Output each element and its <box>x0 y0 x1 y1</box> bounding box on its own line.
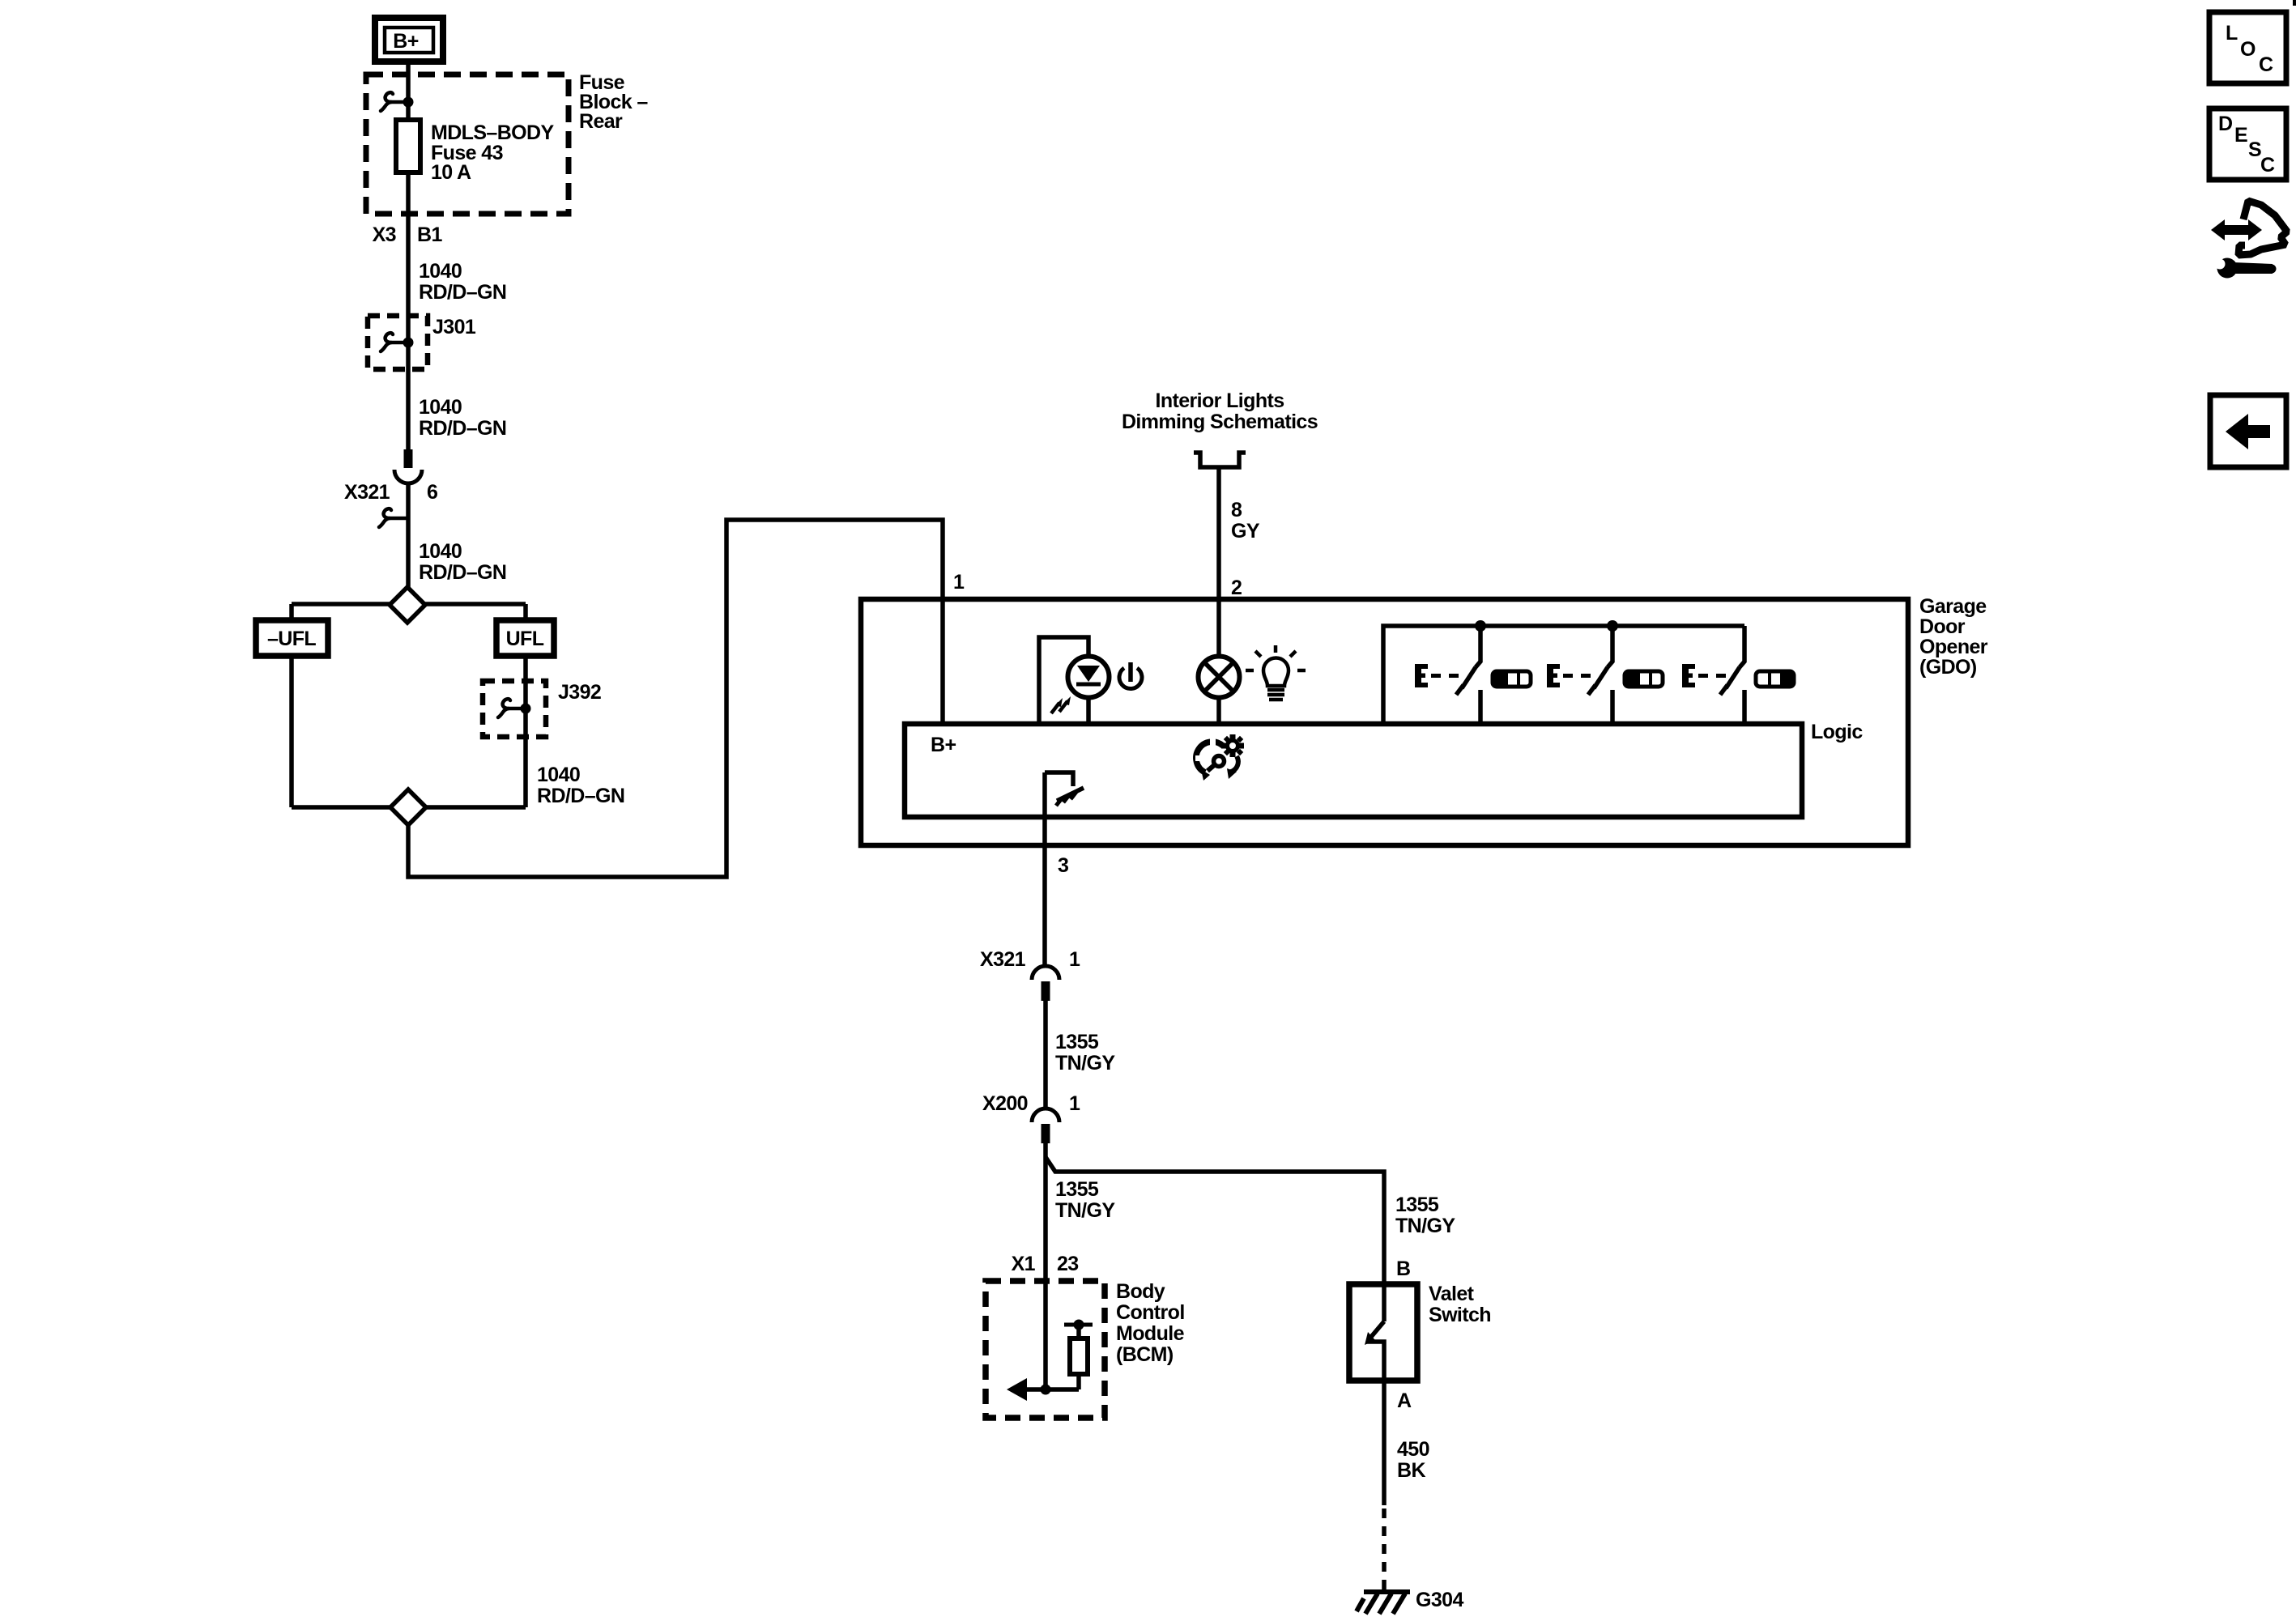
svg-text:BK: BK <box>1397 1459 1425 1482</box>
back arrow navigation box <box>2210 395 2286 467</box>
svg-text:1: 1 <box>1069 1092 1080 1115</box>
svg-text:A: A <box>1397 1389 1412 1412</box>
svg-text:6: 6 <box>427 481 437 504</box>
garage door opener (GDO) outline <box>861 599 1908 845</box>
LOC navigation box <box>2209 12 2286 83</box>
svg-text:RD/D–GN: RD/D–GN <box>419 281 506 304</box>
svg-text:B1: B1 <box>417 223 442 246</box>
svg-text:1355: 1355 <box>1055 1178 1099 1201</box>
wire: dashed to G304 <box>1382 1508 1387 1592</box>
svg-text:Logic: Logic <box>1811 721 1863 743</box>
svg-text:1040: 1040 <box>419 260 462 283</box>
ground G304 <box>1357 1589 1463 1614</box>
svg-text:X321: X321 <box>344 481 390 504</box>
wire: interior lights to GDO pin 2 <box>1216 467 1221 724</box>
svg-text:MDLS–BODY: MDLS–BODY <box>431 121 554 144</box>
svg-text:Opener: Opener <box>1919 636 1988 658</box>
fusible link -UFL <box>256 620 328 656</box>
svg-text:O: O <box>2240 38 2256 61</box>
switch group bus <box>1383 626 1744 724</box>
learn switch 1 <box>1415 626 1480 724</box>
svg-text:TN/GY: TN/GY <box>1055 1199 1115 1222</box>
svg-text:Valet: Valet <box>1429 1283 1475 1305</box>
learn switch 2 <box>1547 626 1612 724</box>
page edge mark <box>2293 0 2296 6</box>
wire: battery feed B+ to fuse, down to connector X321-6 <box>406 60 411 450</box>
wire: valet to ground (solid) <box>1382 1381 1387 1505</box>
svg-text:1: 1 <box>953 571 965 594</box>
signal arrow in BCM <box>1007 1378 1079 1401</box>
valet switch <box>1349 1283 1491 1381</box>
svg-text:(GDO): (GDO) <box>1919 656 1977 679</box>
svg-text:B+: B+ <box>931 734 956 756</box>
wire: UFL loop top rail <box>292 602 526 606</box>
svg-text:1355: 1355 <box>1055 1031 1099 1053</box>
svg-text:–UFL: –UFL <box>267 628 316 650</box>
component location (car + arrows + wrench) icon <box>2211 201 2287 279</box>
indicator battery 1 <box>1493 671 1531 687</box>
lamp (circle-X) <box>1199 657 1240 698</box>
connector X321 pin 1 <box>980 948 1080 1001</box>
indicator battery 3 <box>1756 671 1794 687</box>
svg-text:B: B <box>1396 1257 1410 1280</box>
splice J392 (dashed box with clip) <box>483 681 601 737</box>
svg-text:1: 1 <box>1069 948 1080 971</box>
fuse MDLS-BODY Fuse 43 10 A <box>396 120 554 184</box>
body control module (BCM) dashed outline <box>986 1281 1105 1418</box>
svg-text:Switch: Switch <box>1429 1304 1491 1326</box>
svg-text:Body: Body <box>1116 1280 1165 1303</box>
svg-text:S: S <box>2248 138 2261 161</box>
splice J301 (dashed box with clip) <box>368 316 476 369</box>
svg-text:1355: 1355 <box>1395 1194 1439 1216</box>
svg-text:G304: G304 <box>1416 1589 1463 1611</box>
clip attachment in fuse block <box>381 92 414 111</box>
dimmer gear icon inside logic <box>1195 734 1244 781</box>
svg-text:J392: J392 <box>558 681 601 704</box>
svg-text:UFL: UFL <box>506 628 544 650</box>
photodiode (receiver LED) <box>1051 657 1110 714</box>
logic block inside GDO <box>905 724 1802 817</box>
svg-text:C: C <box>2260 154 2275 177</box>
junction node <box>1475 620 1486 632</box>
wire: GDO pin 3 down to connector X321-1 <box>1042 772 1047 965</box>
svg-text:Garage: Garage <box>1919 595 1987 618</box>
junction node <box>1607 620 1618 632</box>
svg-text:L: L <box>2226 22 2238 45</box>
power symbol <box>1119 662 1142 688</box>
wire: X200 down to BCM <box>1043 1143 1048 1389</box>
splice diamond (bottom) <box>390 789 426 825</box>
svg-text:C: C <box>2259 53 2273 76</box>
svg-text:8: 8 <box>1231 499 1242 521</box>
svg-text:(BCM): (BCM) <box>1116 1343 1174 1366</box>
indicator battery 2 <box>1625 671 1663 687</box>
connector X321 pin 6 <box>344 449 437 527</box>
svg-text:B+: B+ <box>393 30 418 53</box>
svg-text:450: 450 <box>1397 1438 1429 1461</box>
svg-text:Dimming Schematics: Dimming Schematics <box>1122 411 1318 433</box>
svg-text:J301: J301 <box>432 316 476 338</box>
svg-text:1040: 1040 <box>419 396 462 419</box>
svg-text:GY: GY <box>1231 520 1260 543</box>
svg-text:TN/GY: TN/GY <box>1395 1215 1455 1237</box>
bulb icon <box>1246 645 1306 700</box>
wire: branch to valet switch <box>1046 1157 1384 1284</box>
learn switch 3 <box>1682 626 1744 724</box>
photodiode branch loop <box>1039 637 1088 724</box>
svg-text:RD/D–GN: RD/D–GN <box>537 785 624 807</box>
DESC navigation box <box>2209 109 2286 180</box>
svg-text:X321: X321 <box>980 948 1026 971</box>
svg-text:3: 3 <box>1058 854 1068 877</box>
svg-text:X1: X1 <box>1012 1253 1036 1275</box>
svg-text:Door: Door <box>1919 615 1966 638</box>
svg-text:E: E <box>2234 124 2247 147</box>
wire: right branch through UFL <box>523 604 528 807</box>
svg-text:23: 23 <box>1057 1253 1079 1275</box>
wire: connector to diamond <box>406 484 411 587</box>
svg-text:D: D <box>2218 113 2232 135</box>
svg-text:Module: Module <box>1116 1322 1185 1345</box>
B+ battery positive terminal box <box>375 18 443 62</box>
svg-text:1040: 1040 <box>419 540 462 563</box>
wire: left branch through -UFL <box>289 604 294 807</box>
internal ground of GDO logic <box>1045 772 1084 806</box>
pull-up resistor in BCM <box>1064 1320 1093 1390</box>
svg-text:10 A: 10 A <box>431 161 471 184</box>
splice diamond (top) <box>390 587 425 623</box>
wire: UFL loop bottom rail <box>292 805 526 810</box>
svg-text:RD/D–GN: RD/D–GN <box>419 417 506 440</box>
svg-text:1040: 1040 <box>537 764 580 786</box>
svg-text:Interior Lights: Interior Lights <box>1155 389 1284 412</box>
svg-text:RD/D–GN: RD/D–GN <box>419 561 506 584</box>
svg-text:X200: X200 <box>982 1092 1028 1115</box>
connector X200 pin 1 <box>982 1092 1080 1143</box>
interior lights dimming schematics header <box>1122 389 1318 467</box>
wire: X321 to X200 <box>1043 1001 1048 1108</box>
svg-text:2: 2 <box>1231 577 1242 599</box>
fusible link UFL <box>496 620 554 656</box>
svg-text:Rear: Rear <box>579 110 623 133</box>
svg-text:Control: Control <box>1116 1301 1185 1324</box>
wire: bottom diamond to GDO pin 1 (long route) <box>408 520 943 877</box>
svg-text:X3: X3 <box>373 223 396 246</box>
fuse block - rear (dashed outline) <box>366 74 569 214</box>
svg-text:TN/GY: TN/GY <box>1055 1052 1115 1074</box>
